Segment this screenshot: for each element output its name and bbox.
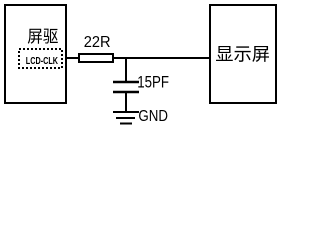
svg-text:22R: 22R [84,34,111,51]
svg-text:LCD-CLK: LCD-CLK [26,56,59,67]
svg-text:15PF: 15PF [137,74,169,92]
display box U2 [210,5,276,103]
ground bar 2 [116,117,135,119]
svg-text:GND: GND [138,108,168,125]
wire: capacitor to ground [125,93,127,111]
wire: box to resistor [66,57,79,59]
ground bar 1 [113,111,139,113]
wire: junction down to capacitor [125,58,127,81]
label 屏驱 (screen driver) [28,29,58,44]
screen-driver box U1 [5,5,66,103]
capacitor C1 top plate [113,81,139,84]
ground bar 3 [120,123,132,125]
pin box LCD-CLK (dotted) [19,49,62,68]
label 显示屏 (display screen) [216,46,269,62]
capacitor C1 bottom plate [113,91,139,94]
wire: resistor to display box [113,57,210,59]
resistor R1 body [79,54,113,62]
